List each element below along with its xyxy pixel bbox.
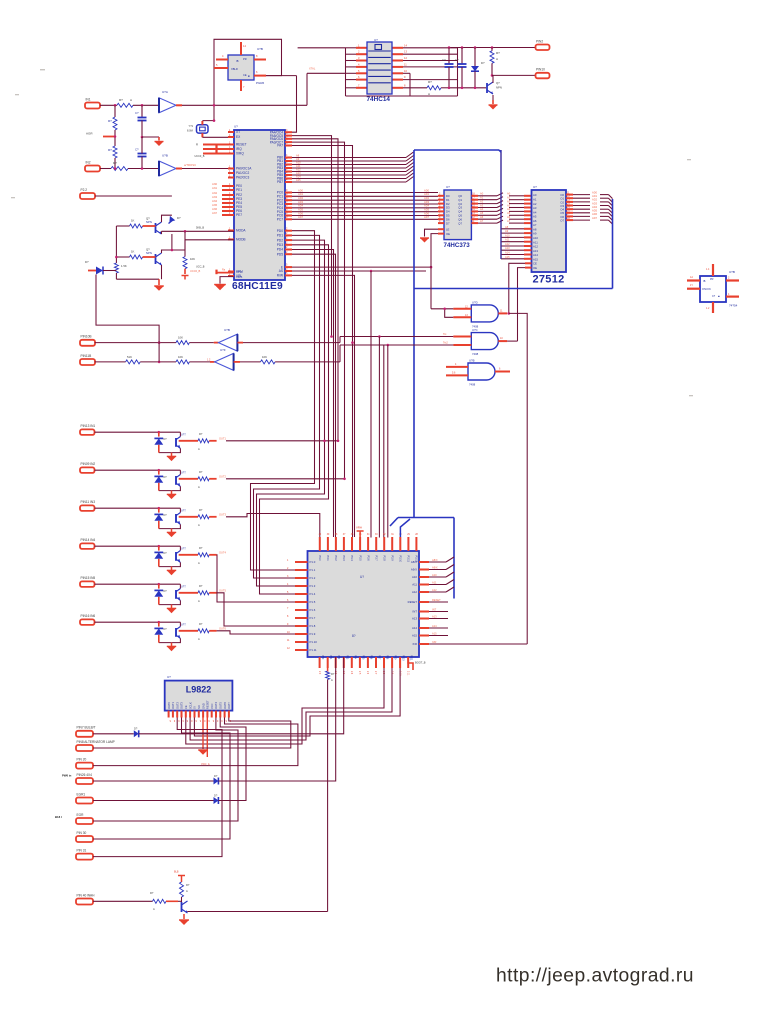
svg-text:P3.2: P3.2 [334,556,337,562]
svg-text:1K: 1K [131,219,135,223]
svg-text:A: A [198,561,200,565]
svg-text:8?: 8? [352,634,356,638]
svg-text:U?: U? [374,38,378,42]
svg-text:OUT5: OUT5 [219,589,226,593]
svg-text:AN2: AN2 [212,191,218,195]
svg-text:A11: A11 [432,580,437,584]
svg-text:XTY1: XTY1 [236,270,243,274]
svg-text:P2.2: P2.2 [81,188,88,192]
svg-text:PIN15 IN5: PIN15 IN5 [81,576,96,580]
svg-text:PA7: PA7 [277,144,283,148]
svg-text:AD1: AD1 [298,192,304,196]
svg-text:D?: D? [177,216,181,220]
svg-text:PA0/OC1A: PA0/OC1A [236,167,252,171]
svg-text:D7: D7 [446,221,450,225]
svg-text:A13: A13 [432,614,437,618]
svg-text:OUT5: OUT5 [219,702,223,709]
svg-text:A6: A6 [480,215,484,219]
svg-text:A2: A2 [480,199,484,203]
svg-text:OUT3: OUT3 [180,702,184,709]
svg-text:10K: 10K [178,336,183,340]
svg-text:EGR: EGR [77,813,85,817]
svg-text:X/R: X/R [412,642,417,646]
svg-text:A13: A13 [296,171,301,175]
svg-text:7408: 7408 [469,383,476,387]
svg-text:P20: P20 [321,655,324,660]
svg-text:A14: A14 [296,174,301,178]
svg-text:UCC0_B: UCC0_B [195,155,205,158]
svg-text:U?B: U?B [162,154,168,158]
svg-text:EGR1: EGR1 [77,792,86,796]
svg-text:AD6: AD6 [592,212,598,216]
svg-text:U?T: U?T [181,624,186,627]
svg-text:A15: A15 [412,634,417,638]
svg-text:XIRQ: XIRQ [236,152,244,156]
svg-text:P3.5: P3.5 [358,555,361,561]
svg-text:OUT4: OUT4 [214,702,218,709]
svg-text:A: A [198,599,200,603]
svg-text:PIN26 4X4: PIN26 4X4 [77,773,93,777]
svg-text:27512: 27512 [532,274,564,286]
svg-text:P28: P28 [386,655,389,660]
svg-text:OUT0: OUT0 [167,702,171,709]
svg-text:A: A [198,447,200,451]
svg-text:OUT1: OUT1 [171,702,175,709]
svg-text:P1.9: P1.9 [310,632,316,636]
svg-text:U?F: U?F [220,348,226,352]
svg-text:R?: R? [108,148,112,152]
svg-text:X/R: X/R [432,640,436,644]
svg-text:AN1: AN1 [212,186,218,190]
svg-text:A5: A5 [480,211,484,215]
svg-text:AN3: AN3 [212,195,218,199]
svg-text:IN1: IN1 [86,97,91,101]
svg-text:AN5: AN5 [212,203,218,207]
svg-text:PIN 31: PIN 31 [77,848,87,852]
svg-text:Q7: Q7 [458,221,462,225]
svg-text:PR: PR [243,57,247,61]
svg-text:A15: A15 [505,255,510,259]
svg-text:AD0: AD0 [298,188,304,192]
svg-text:OUT2: OUT2 [219,475,226,479]
svg-text:NPN: NPN [496,86,502,90]
svg-text:1.5K: 1.5K [121,264,127,268]
svg-text:PD5: PD5 [277,252,283,256]
svg-text:A13: A13 [412,617,417,621]
svg-text:A8: A8 [296,153,300,157]
svg-text:PGR6: PGR6 [256,81,265,85]
svg-text:U?: U? [446,185,450,189]
svg-text:PD1: PD1 [277,234,283,238]
svg-text:NPN: NPN [146,220,152,224]
svg-text:PIN13 IN1: PIN13 IN1 [81,424,96,428]
svg-text:1K: 1K [131,250,135,254]
svg-text:L9822: L9822 [186,685,212,695]
svg-text:Y?1: Y?1 [189,124,194,128]
svg-text:R?: R? [108,119,112,123]
svg-text:INT: INT [432,607,437,611]
svg-text:P3.3: P3.3 [342,555,345,561]
svg-text:U?T: U?T [181,548,186,551]
svg-text:P27: P27 [377,655,380,660]
svg-text:PIN 40 WAH: PIN 40 WAH [77,893,96,897]
svg-text:AD4: AD4 [424,204,430,208]
svg-text:U?B: U?B [224,328,230,332]
svg-text:R?: R? [199,432,203,436]
svg-text:P29: P29 [394,655,397,660]
svg-text:R?: R? [199,622,203,626]
svg-text:A8/X: A8/X [411,560,417,564]
svg-text:R?: R? [199,470,203,474]
svg-text:A11: A11 [296,164,301,168]
svg-text:OE: OE [533,266,537,270]
svg-text:5KB_B: 5KB_B [196,226,204,230]
svg-text:RESET: RESET [432,598,441,602]
svg-text:XT: XT [236,130,240,134]
svg-text:AD2: AD2 [424,196,430,200]
svg-text:A10: A10 [296,160,301,164]
svg-text:68HC11E9: 68HC11E9 [232,281,283,292]
svg-text:U?D: U?D [472,301,478,305]
svg-text:AD4: AD4 [298,204,304,208]
svg-text:R?: R? [199,546,203,550]
svg-text:A7: A7 [480,219,484,223]
svg-text:U?: U? [533,185,537,189]
svg-text:A: A [428,92,430,96]
svg-text:P3.1: P3.1 [326,556,329,562]
svg-text:P1.0: P1.0 [310,560,316,564]
svg-text:A: A [496,57,498,61]
svg-text:A14: A14 [412,626,417,630]
svg-text:AD1: AD1 [424,192,430,196]
svg-text:P1.1: P1.1 [310,568,316,572]
svg-text:A6: A6 [507,215,511,219]
svg-text:OUT6: OUT6 [223,702,227,709]
svg-text:AD7: AD7 [592,216,598,220]
svg-text:Tst: Tst [443,332,447,336]
svg-text:A8: A8 [505,225,509,229]
svg-text:PIN11 IN3: PIN11 IN3 [81,500,96,504]
svg-text:PIN 30: PIN 30 [77,831,87,835]
svg-text:P1.8: P1.8 [310,624,316,628]
svg-text:P21: P21 [329,655,332,660]
svg-text:A13: A13 [505,246,510,250]
svg-text:P1.4: P1.4 [310,592,316,596]
svg-text:MODB: MODB [236,238,246,242]
svg-text:AD5: AD5 [592,209,598,213]
svg-text:P1.5: P1.5 [310,600,316,604]
svg-text:R?: R? [113,161,117,165]
svg-text:R?: R? [331,672,335,676]
svg-text:R?: R? [150,891,154,895]
svg-text:XBLR: XBLR [231,67,238,71]
svg-text:P3.9: P3.9 [390,555,393,561]
svg-text:P1.11: P1.11 [310,648,318,652]
svg-text:Tst2: Tst2 [443,341,448,345]
svg-text:A2: A2 [507,199,511,203]
svg-text:A9: A9 [505,229,509,233]
svg-text:10K: 10K [178,355,183,359]
svg-text:OUT1: OUT1 [219,437,226,441]
svg-text:BLB: BLB [174,871,179,874]
svg-text:SO: SO [197,705,201,709]
svg-text:CE: CE [184,705,188,709]
svg-text:R?: R? [119,98,123,102]
svg-text:A9/X: A9/X [432,565,438,569]
svg-text:C?: C? [135,111,139,115]
svg-text:R?: R? [496,51,500,55]
svg-text:U?T: U?T [181,434,186,437]
svg-text:BOOT_B: BOOT_B [415,661,426,665]
svg-text:PA2/OC3: PA2/OC3 [236,176,249,180]
svg-text:AD3: AD3 [424,200,430,204]
svg-text:A0: A0 [507,192,511,196]
svg-text:P210: P210 [402,655,405,661]
svg-text:A10: A10 [505,233,510,237]
svg-text:74HC373: 74HC373 [444,242,471,249]
svg-text:AD4: AD4 [592,205,598,209]
svg-text:D?: D? [134,727,138,731]
svg-text:SCLK: SCLK [188,702,192,709]
svg-text:PW6 in: PW6 in [62,774,72,778]
svg-text:INT: INT [412,610,417,614]
svg-text:2.11: 2.11 [406,671,408,676]
svg-text:RESET: RESET [408,600,418,604]
svg-text:U?C: U?C [472,328,478,332]
svg-text:PD2: PD2 [277,238,283,242]
svg-text:PC7: PC7 [277,218,283,222]
svg-text:74HC14: 74HC14 [367,96,391,103]
svg-text:PD3: PD3 [277,243,283,247]
svg-text:AN4: AN4 [212,199,218,203]
svg-text:A8/X: A8/X [432,558,438,562]
svg-text:51K: 51K [127,355,132,359]
svg-text:PD4: PD4 [277,248,283,252]
svg-text:A: A [153,907,155,911]
svg-text:AD1: AD1 [592,194,598,198]
svg-text:PD0: PD0 [277,229,283,233]
svg-text:AD3: AD3 [592,201,598,205]
svg-text:GND: GND [201,703,205,709]
svg-text:A: A [331,678,333,682]
svg-text:SI: SI [193,706,197,709]
svg-text:A12: A12 [296,167,301,171]
svg-text:A1: A1 [507,196,511,200]
svg-text:PIN16 IN6: PIN16 IN6 [81,614,96,618]
svg-text:10K: 10K [190,257,195,261]
svg-text:CE: CE [243,73,247,77]
svg-text:PIN7 BULB/T: PIN7 BULB/T [77,726,96,730]
svg-text:U?T: U?T [181,586,186,589]
svg-text:D?: D? [85,260,89,264]
svg-text:R?: R? [199,584,203,588]
svg-text:P22: P22 [337,655,340,660]
svg-text:P1.7: P1.7 [310,616,316,620]
svg-text:8.0M: 8.0M [187,129,193,133]
svg-text:AD5: AD5 [424,208,430,212]
svg-text:OSC/IN: OSC/IN [702,288,711,291]
svg-text:P3.7: P3.7 [374,556,377,562]
svg-text:A9: A9 [296,157,300,161]
svg-text:VRH: VRH [356,526,362,530]
svg-text:A: A [198,523,200,527]
svg-text:PIN8 ALTERNATOR LAMP: PIN8 ALTERNATOR LAMP [77,740,115,744]
svg-text:RESET: RESET [206,700,210,709]
svg-text:A: A [186,889,188,893]
svg-text:A12: A12 [412,590,417,594]
svg-text:AD7: AD7 [424,215,430,219]
svg-text:PIN10B: PIN10B [81,335,92,339]
svg-text:C?: C? [135,148,139,152]
svg-text:A: A [130,98,132,102]
svg-text:A11: A11 [412,583,417,587]
svg-text:A3: A3 [507,203,511,207]
svg-text:AGR: AGR [86,132,93,136]
svg-text:R/W: R/W [277,274,283,278]
svg-text:AD2: AD2 [298,196,304,200]
svg-text:PIN 20: PIN 20 [77,757,87,761]
svg-text:AD7: AD7 [298,215,304,219]
svg-text:P3.11: P3.11 [407,556,410,563]
svg-text:P26: P26 [369,655,372,660]
svg-text:MODA: MODA [236,229,246,233]
svg-text:AD0: AD0 [592,190,598,194]
svg-text:AN6: AN6 [212,207,218,211]
svg-text:P3.4: P3.4 [350,556,353,562]
svg-text:D?: D? [214,774,218,778]
svg-text:A15: A15 [432,631,437,635]
svg-text:7408: 7408 [472,352,479,356]
svg-text:NPN: NPN [146,251,152,255]
svg-text:VFP1: VFP1 [236,275,243,279]
svg-text:1A: 1A [690,276,693,279]
svg-text:PIN11B: PIN11B [81,354,92,358]
svg-text:AD5: AD5 [298,208,304,212]
svg-text:C?: C? [455,58,459,62]
svg-text:IRQ: IRQ [236,147,242,151]
svg-text:LE: LE [446,227,450,231]
svg-text:O7: O7 [560,219,564,223]
svg-text:R?: R? [199,508,203,512]
svg-text:AN0: AN0 [212,182,218,186]
svg-text:IN2: IN2 [86,160,91,164]
svg-text:A4: A4 [480,207,484,211]
svg-text:AD2: AD2 [592,198,598,202]
svg-text:OUT6: OUT6 [219,627,226,631]
svg-text:A12: A12 [505,242,510,246]
svg-text:D?: D? [214,794,218,798]
svg-text:A10: A10 [432,573,437,577]
svg-text:OUT7: OUT7 [227,702,231,709]
svg-text:AS: AS [279,269,283,273]
svg-text:U?: U? [234,125,238,129]
svg-text:PIN14 IN4: PIN14 IN4 [81,538,96,542]
svg-text:UCC0_B: UCC0_B [190,269,201,273]
svg-text:U?: U? [167,675,171,679]
svg-text:P1.10: P1.10 [310,640,318,644]
svg-text:U?T: U?T [181,472,186,475]
svg-text:P25: P25 [361,655,364,660]
svg-text:OUT2: OUT2 [175,702,179,709]
svg-text:OUT3: OUT3 [219,513,226,517]
svg-text:PE7: PE7 [236,213,242,217]
svg-text:PIN09 IN2: PIN09 IN2 [81,462,96,466]
svg-text:R?: R? [428,80,432,84]
svg-text:A14: A14 [505,251,510,255]
svg-text:VCC: VCC [210,703,214,709]
svg-text:A1: A1 [480,196,484,200]
svg-text:OUT4: OUT4 [219,551,226,555]
svg-text:P3.6: P3.6 [366,556,369,562]
svg-text:U?B: U?B [469,359,475,363]
svg-text:74?54: 74?54 [729,304,738,308]
svg-text:A12: A12 [432,588,437,592]
svg-text:A0: A0 [480,192,484,196]
svg-text:U?B: U?B [257,47,263,51]
svg-text:R: R [196,143,198,147]
svg-text:A: A [198,485,200,489]
svg-text:AD3: AD3 [298,200,304,204]
svg-text:XTAL: XTAL [309,67,316,71]
svg-text:A: A [198,637,200,641]
svg-text:PIN2: PIN2 [536,39,543,43]
svg-text:A11: A11 [505,238,510,242]
svg-text:A14: A14 [432,624,437,628]
svg-text:P23: P23 [345,655,348,660]
svg-text:http://jeep.avtograd.ru: http://jeep.avtograd.ru [496,966,694,987]
svg-text:PE1: PE1 [236,188,242,192]
svg-text:1Y: 1Y [690,284,693,287]
svg-text:IB: IB [236,59,239,63]
svg-text:P1.2: P1.2 [310,576,316,580]
svg-text:A10: A10 [412,575,417,579]
svg-text:UCC_B: UCC_B [196,266,205,269]
svg-text:A4: A4 [507,207,511,211]
svg-text:B18 I: B18 I [55,815,62,819]
svg-text:U?T: U?T [181,510,186,513]
svg-text:PB7: PB7 [277,180,283,184]
svg-text:AD0: AD0 [424,188,430,192]
svg-text:A5: A5 [507,211,511,215]
svg-text:PA1/OC2: PA1/OC2 [236,171,249,175]
svg-text:A15: A15 [296,178,301,182]
svg-text:10K: 10K [262,355,267,359]
svg-text:AD6: AD6 [424,211,430,215]
svg-text:R?: R? [186,883,190,887]
svg-text:RESET: RESET [236,143,247,147]
svg-text:P1.6: P1.6 [310,608,316,612]
svg-text:PIN10: PIN10 [536,68,545,72]
svg-text:a/TROSC: a/TROSC [184,163,196,167]
svg-text:PR: PR [710,278,714,281]
svg-text:U?: U? [360,575,364,579]
svg-text:U?B: U?B [729,270,735,274]
svg-text:P1.3: P1.3 [310,584,316,588]
svg-text:P3.8: P3.8 [382,556,385,562]
svg-text:A3: A3 [480,203,484,207]
svg-text:D?: D? [481,61,485,65]
svg-text:P24: P24 [353,655,356,660]
svg-text:P211: P211 [410,655,413,661]
svg-text:P3.10: P3.10 [399,556,402,563]
svg-text:OE: OE [446,232,450,236]
svg-text:C?: C? [442,58,446,62]
svg-text:P3.0: P3.0 [318,556,321,562]
svg-text:AD6: AD6 [298,211,304,215]
svg-text:IB: IB [703,280,706,283]
svg-text:A9/X: A9/X [411,568,417,572]
svg-text:A7: A7 [507,219,511,223]
